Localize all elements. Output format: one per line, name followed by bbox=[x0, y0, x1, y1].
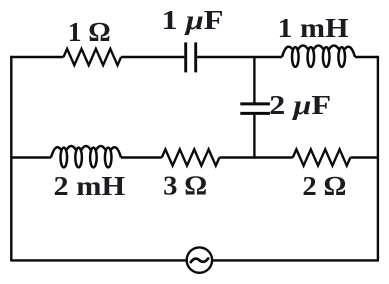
svg-text:1 mH: 1 mH bbox=[278, 12, 349, 43]
wire middle branch vertical lower bbox=[253, 115, 255, 159]
wire left border bbox=[10, 56, 12, 261]
wire middle-right segment bbox=[350, 156, 379, 158]
resistor 3 Ohm bbox=[162, 149, 220, 165]
svg-text:2 Ω: 2 Ω bbox=[302, 170, 346, 201]
wire bottom-left segment bbox=[10, 259, 187, 261]
AC source circle bbox=[187, 247, 212, 272]
wire top-left segment bbox=[10, 56, 63, 58]
wire middle between L2 and R3 bbox=[121, 156, 162, 158]
svg-text:1 μF: 1 μF bbox=[162, 4, 224, 35]
AC source sine symbol bbox=[191, 258, 208, 262]
wire bottom-right segment bbox=[212, 259, 379, 261]
wire top between R1 and C1 bbox=[121, 56, 184, 58]
resistor 1 Ohm bbox=[64, 49, 122, 65]
wire middle branch vertical upper bbox=[253, 57, 255, 103]
wire top-right segment bbox=[355, 56, 379, 58]
wire top between C1 and L1 (with node junction at x=254.4) bbox=[197, 56, 282, 58]
svg-text:2 μF: 2 μF bbox=[269, 89, 331, 120]
svg-text:3 Ω: 3 Ω bbox=[163, 170, 207, 201]
inductor 2 mH bbox=[51, 146, 121, 167]
inductor 1 mH bbox=[282, 45, 355, 66]
capacitor 2 uF plates bbox=[240, 104, 270, 114]
resistor 2 Ohm bbox=[293, 149, 351, 165]
wire middle between R3 and R2 (junction with vertical branch) bbox=[219, 156, 292, 158]
capacitor 1 uF plates bbox=[186, 42, 196, 72]
wire right border bbox=[377, 57, 379, 260]
svg-text:2 mH: 2 mH bbox=[54, 170, 126, 201]
wire middle-left segment bbox=[10, 156, 51, 158]
svg-text:1 Ω: 1 Ω bbox=[68, 16, 111, 47]
